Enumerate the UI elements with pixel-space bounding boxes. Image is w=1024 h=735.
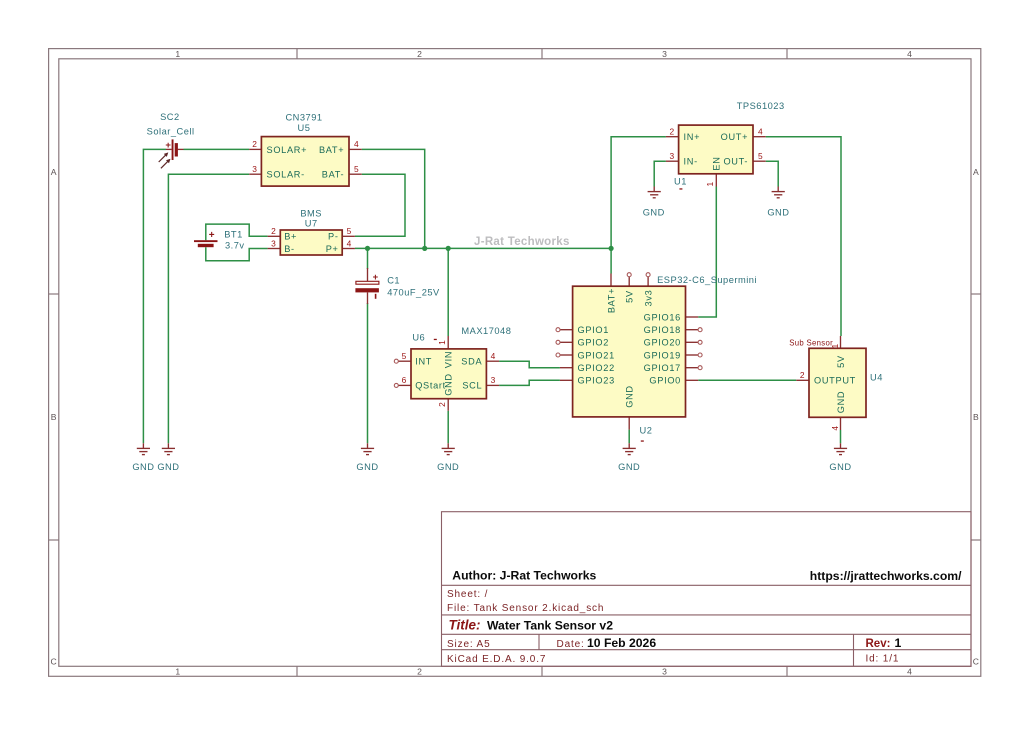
- svg-text:4: 4: [907, 667, 912, 677]
- svg-text:5V: 5V: [625, 290, 635, 303]
- svg-text:Title:: Title:: [449, 618, 481, 633]
- svg-text:OUTPUT: OUTPUT: [814, 376, 856, 386]
- solar cell SC2: [147, 112, 195, 169]
- svg-text:GND: GND: [829, 462, 851, 472]
- svg-text:Rev:: Rev:: [866, 638, 891, 650]
- junction on rail at BAT+ feed: [422, 246, 427, 251]
- wire solar cell right lead to U5 SOLAR+: [184, 148, 250, 150]
- ground U2: [618, 443, 640, 472]
- wire rail to C1 top: [367, 248, 369, 269]
- svg-text:GPIO1: GPIO1: [578, 325, 610, 335]
- svg-text:GND: GND: [767, 207, 789, 217]
- svg-text:P-: P-: [328, 232, 339, 242]
- svg-text:B-: B-: [284, 244, 295, 254]
- svg-text:GPIO18: GPIO18: [644, 325, 681, 335]
- svg-text:Id: 1/1: Id: 1/1: [866, 653, 900, 664]
- svg-text:CN3791: CN3791: [285, 112, 322, 122]
- wire U2 GPIO0 to U4 OUTPUT: [698, 379, 796, 381]
- svg-text:U6: U6: [412, 333, 425, 343]
- svg-text:5: 5: [347, 226, 352, 236]
- svg-text:GPIO19: GPIO19: [644, 350, 681, 360]
- svg-text:1: 1: [895, 636, 902, 650]
- svg-text:4: 4: [907, 49, 912, 59]
- wire battery BT1 plus to U7 B+: [206, 224, 268, 240]
- svg-text:J-Rat Techworks: J-Rat Techworks: [474, 236, 570, 248]
- junction rail / U1 IN+ / U2 BAT+: [609, 246, 614, 251]
- svg-text:Sheet: /: Sheet: /: [447, 589, 488, 600]
- svg-text:U5: U5: [298, 123, 311, 133]
- wire solar cell left lead down to GND: [143, 149, 166, 443]
- svg-text:B: B: [51, 412, 57, 422]
- svg-text:BAT+: BAT+: [606, 288, 616, 313]
- svg-text:GND: GND: [132, 462, 154, 472]
- svg-text:3: 3: [662, 49, 667, 59]
- svg-text:5V: 5V: [836, 355, 846, 368]
- svg-text:2: 2: [417, 49, 422, 59]
- wire C1 bottom to GND: [367, 303, 369, 443]
- svg-text:U7: U7: [305, 219, 318, 229]
- svg-text:5: 5: [758, 151, 763, 161]
- wire battery BT1 minus to U7 B-: [206, 247, 268, 261]
- svg-text:Sub Sensor: Sub Sensor: [789, 339, 833, 348]
- junction on rail at C1: [365, 246, 370, 251]
- svg-text:470uF_25V: 470uF_25V: [387, 287, 440, 297]
- svg-text:B+: B+: [284, 232, 297, 242]
- TITLE BLOCK: [442, 512, 972, 667]
- svg-text:https://jrattechworks.com/: https://jrattechworks.com/: [810, 569, 962, 583]
- svg-text:OUT-: OUT-: [723, 157, 748, 167]
- svg-text:MAX17048: MAX17048: [461, 326, 511, 336]
- svg-text:Author: J-Rat Techworks: Author: J-Rat Techworks: [452, 569, 596, 583]
- svg-text:GPIO22: GPIO22: [578, 363, 615, 373]
- op-amp U2 ESP32-C6_Supermini: [556, 273, 757, 442]
- svg-text:GPIO21: GPIO21: [578, 350, 615, 360]
- svg-text:GND: GND: [643, 207, 665, 217]
- svg-text:1: 1: [437, 340, 447, 345]
- svg-text:4: 4: [758, 127, 763, 137]
- ground U1 OUT-: [767, 187, 789, 218]
- svg-text:10 Feb 2026: 10 Feb 2026: [587, 636, 656, 650]
- op-amp U6 MAX17048 fuel gauge: [394, 326, 511, 411]
- ground U4: [829, 443, 851, 472]
- svg-text:EN: EN: [711, 156, 721, 170]
- svg-text:2: 2: [252, 139, 257, 149]
- svg-text:5: 5: [402, 351, 407, 361]
- svg-text:2: 2: [669, 127, 674, 137]
- svg-text:BT1: BT1: [224, 229, 243, 239]
- wire U6 SCL to U2 GPIO23: [499, 380, 560, 385]
- svg-text:4: 4: [347, 238, 352, 248]
- svg-text:TPS61023: TPS61023: [737, 101, 785, 111]
- svg-text:4: 4: [491, 351, 496, 361]
- wire U5 SOLAR- left down to GND: [168, 174, 249, 443]
- op-amp U7 BMS: [268, 209, 355, 256]
- svg-text:A: A: [973, 167, 979, 177]
- svg-text:BAT+: BAT+: [319, 145, 344, 155]
- svg-text:4: 4: [830, 426, 840, 431]
- wire main power rail: [355, 247, 611, 249]
- svg-text:GND: GND: [157, 462, 179, 472]
- wire U1 OUT+ down to U4 5V: [766, 137, 841, 336]
- ground solar minus: [157, 443, 179, 472]
- wire U1 OUT- to GND: [766, 161, 779, 186]
- svg-text:BMS: BMS: [300, 209, 322, 219]
- svg-text:GND: GND: [356, 462, 378, 472]
- wire U5 BAT- to U7 P-: [355, 174, 405, 236]
- wire U6 SDA to U2 GPIO22: [499, 361, 560, 368]
- battery BT1: [194, 229, 245, 250]
- svg-text:SOLAR-: SOLAR-: [267, 170, 305, 180]
- svg-text:GPIO16: GPIO16: [644, 312, 681, 322]
- svg-text:GND: GND: [618, 462, 640, 472]
- svg-text:C1: C1: [387, 276, 400, 286]
- svg-text:GND: GND: [437, 462, 459, 472]
- svg-text:GPIO17: GPIO17: [644, 363, 681, 373]
- op-amp U1 TPS61023 boost converter: [666, 101, 785, 190]
- svg-text:INT: INT: [415, 357, 432, 367]
- svg-text:3.7v: 3.7v: [225, 241, 245, 251]
- svg-text:3v3: 3v3: [644, 290, 654, 307]
- svg-text:ESP32-C6_Supermini: ESP32-C6_Supermini: [657, 275, 757, 285]
- ground U1 IN-: [643, 187, 665, 218]
- svg-text:KiCad E.D.A. 9.0.7: KiCad E.D.A. 9.0.7: [447, 654, 546, 665]
- svg-text:5: 5: [354, 164, 359, 174]
- svg-text:GPIO23: GPIO23: [578, 376, 615, 386]
- svg-text:4: 4: [354, 139, 359, 149]
- op-amp U5 CN3791 charger: [249, 112, 362, 186]
- svg-text:IN+: IN+: [684, 132, 701, 142]
- svg-text:P+: P+: [326, 244, 339, 254]
- svg-text:SC2: SC2: [160, 112, 180, 122]
- ground C1: [356, 443, 378, 472]
- svg-text:2: 2: [417, 667, 422, 677]
- svg-text:3: 3: [669, 151, 674, 161]
- wire rail down to U2 BAT+: [610, 248, 612, 273]
- svg-text:IN-: IN-: [684, 157, 698, 167]
- svg-text:U1: U1: [674, 177, 687, 187]
- svg-text:GND: GND: [625, 385, 635, 408]
- svg-text:A: A: [51, 167, 57, 177]
- svg-text:GND: GND: [836, 391, 846, 414]
- svg-text:1: 1: [175, 49, 180, 59]
- svg-text:SOLAR+: SOLAR+: [267, 145, 308, 155]
- svg-text:QStart: QStart: [415, 381, 446, 391]
- svg-text:U2: U2: [640, 425, 653, 435]
- svg-text:2: 2: [800, 370, 805, 380]
- svg-text:3: 3: [491, 375, 496, 385]
- svg-text:File: Tank Sensor 2.kicad_sch: File: Tank Sensor 2.kicad_sch: [447, 603, 604, 614]
- svg-text:+: +: [209, 230, 215, 241]
- wire U2 GND to GND: [628, 430, 630, 444]
- svg-text:GPIO2: GPIO2: [578, 338, 610, 348]
- svg-text:SDA: SDA: [461, 357, 482, 367]
- svg-text:3: 3: [252, 164, 257, 174]
- ground solar left: [132, 443, 154, 472]
- svg-text:+: +: [373, 272, 379, 283]
- svg-text:6: 6: [402, 375, 407, 385]
- svg-text:3: 3: [271, 238, 276, 248]
- svg-text:C: C: [973, 656, 979, 666]
- ground U6: [437, 443, 459, 472]
- svg-text:2: 2: [437, 402, 447, 407]
- svg-text:VIN: VIN: [444, 351, 454, 368]
- svg-text:GPIO20: GPIO20: [644, 338, 681, 348]
- capacitor C1: [355, 268, 440, 304]
- svg-text:GND: GND: [444, 373, 454, 396]
- wire rail up to U1 IN+: [611, 137, 666, 249]
- wire U6 GND to GND: [447, 411, 449, 444]
- svg-text:Size: A5: Size: A5: [447, 639, 491, 650]
- svg-text:SCL: SCL: [462, 381, 482, 391]
- wire U5 BAT+ to main rail: [362, 149, 425, 248]
- svg-text:C: C: [50, 656, 56, 666]
- wire U1 IN- to GND: [654, 161, 666, 186]
- junction on rail at U6 VIN feed: [446, 246, 451, 251]
- svg-text:U4: U4: [870, 373, 883, 383]
- svg-text:BAT-: BAT-: [322, 170, 345, 180]
- wire U1 EN down to U2 GPIO16: [698, 187, 716, 318]
- svg-text:+: +: [165, 140, 171, 151]
- svg-text:Water Tank Sensor v2: Water Tank Sensor v2: [487, 619, 613, 633]
- svg-text:3: 3: [662, 667, 667, 677]
- svg-text:1: 1: [705, 182, 715, 187]
- svg-text:2: 2: [271, 226, 276, 236]
- op-amp U4 Sub Sensor: [796, 336, 883, 431]
- svg-text:B: B: [973, 412, 979, 422]
- svg-text:GPIO0: GPIO0: [649, 376, 681, 386]
- svg-text:Solar_Cell: Solar_Cell: [147, 126, 195, 136]
- wire rail to U6 VIN: [447, 248, 449, 336]
- svg-text:OUT+: OUT+: [721, 132, 749, 142]
- wire U4 GND to GND: [840, 430, 842, 443]
- svg-text:Date:: Date:: [557, 639, 585, 650]
- svg-text:1: 1: [175, 667, 180, 677]
